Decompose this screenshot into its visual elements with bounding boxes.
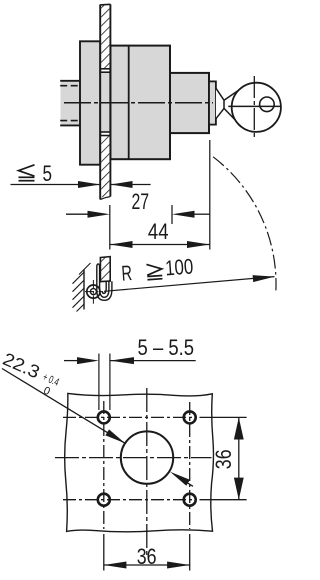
svg-text:5: 5 — [43, 161, 53, 186]
hole row centerline bottom — [63, 499, 197, 501]
extension line at body right edge — [171, 205, 173, 224]
corner hole bottom-right — [184, 494, 196, 506]
bottom 36 dimension — [104, 562, 190, 569]
plate with wavy broken edges — [65, 393, 214, 531]
clip coil centerlines — [85, 280, 103, 304]
hole column centerline right — [189, 402, 191, 529]
svg-text:36: 36 — [137, 544, 157, 569]
body joint line — [128, 46, 130, 160]
svg-text:36: 36 — [211, 449, 236, 469]
clip coil circles — [87, 285, 100, 298]
collar ring — [209, 81, 216, 124]
right 36 dimension — [234, 417, 244, 499]
22.3 +0.4/0 label (rotated) — [0, 349, 63, 400]
svg-text:100: 100 — [164, 255, 194, 281]
dimension line for panel thickness (y=184.5) — [11, 181, 151, 188]
dash-dot radius arc — [213, 157, 276, 291]
plate vertical centerline — [146, 388, 148, 558]
key slot line — [228, 105, 281, 107]
rear shaft (left cylinder, broken) — [60, 81, 79, 126]
diameter leader line through central hole — [2, 369, 193, 487]
extension line at panel right edge — [109, 205, 111, 250]
corner hole top-left — [98, 411, 110, 423]
barrel through panel hole — [100, 72, 110, 132]
svg-text:27: 27 — [132, 189, 150, 214]
svg-text:44: 44 — [148, 219, 169, 244]
corner hole bottom-left — [98, 494, 110, 506]
dimension 44 line — [110, 241, 210, 248]
dimension 27 line — [66, 211, 210, 218]
svg-text:R: R — [121, 261, 133, 286]
flange disc behind panel — [80, 41, 100, 164]
spring clip hook — [97, 264, 112, 300]
svg-text:5 – 5.5: 5 – 5.5 — [138, 335, 195, 360]
wall line with hatching — [73, 263, 91, 312]
R >= 100 label — [121, 255, 195, 286]
dimension "less-equal 5" symbol — [19, 165, 35, 181]
central hole circle — [121, 431, 173, 483]
key ring hole — [260, 97, 275, 112]
5-5.5 dimension line — [64, 357, 196, 364]
key bow circle — [232, 83, 281, 132]
medium cylinder — [170, 73, 209, 133]
key blade wedge — [224, 87, 243, 100]
extension line at cylinder end — [209, 140, 211, 250]
corner hole top-right — [184, 411, 196, 423]
panel (hatched bar) — [100, 4, 110, 199]
main body (front of panel) — [110, 46, 170, 160]
hole column centerline left — [103, 401, 105, 529]
slot extension lines (5-5.5 feature) — [98, 354, 100, 411]
panel piece (hatched) in clip detail — [100, 257, 110, 282]
plate horizontal centerline — [55, 457, 212, 459]
cone tip — [216, 88, 224, 119]
hole row centerline top — [63, 416, 197, 418]
key vertical centerline — [253, 76, 255, 139]
main horizontal axis centerline — [64, 102, 213, 104]
leader line to radius arc — [104, 275, 275, 291]
